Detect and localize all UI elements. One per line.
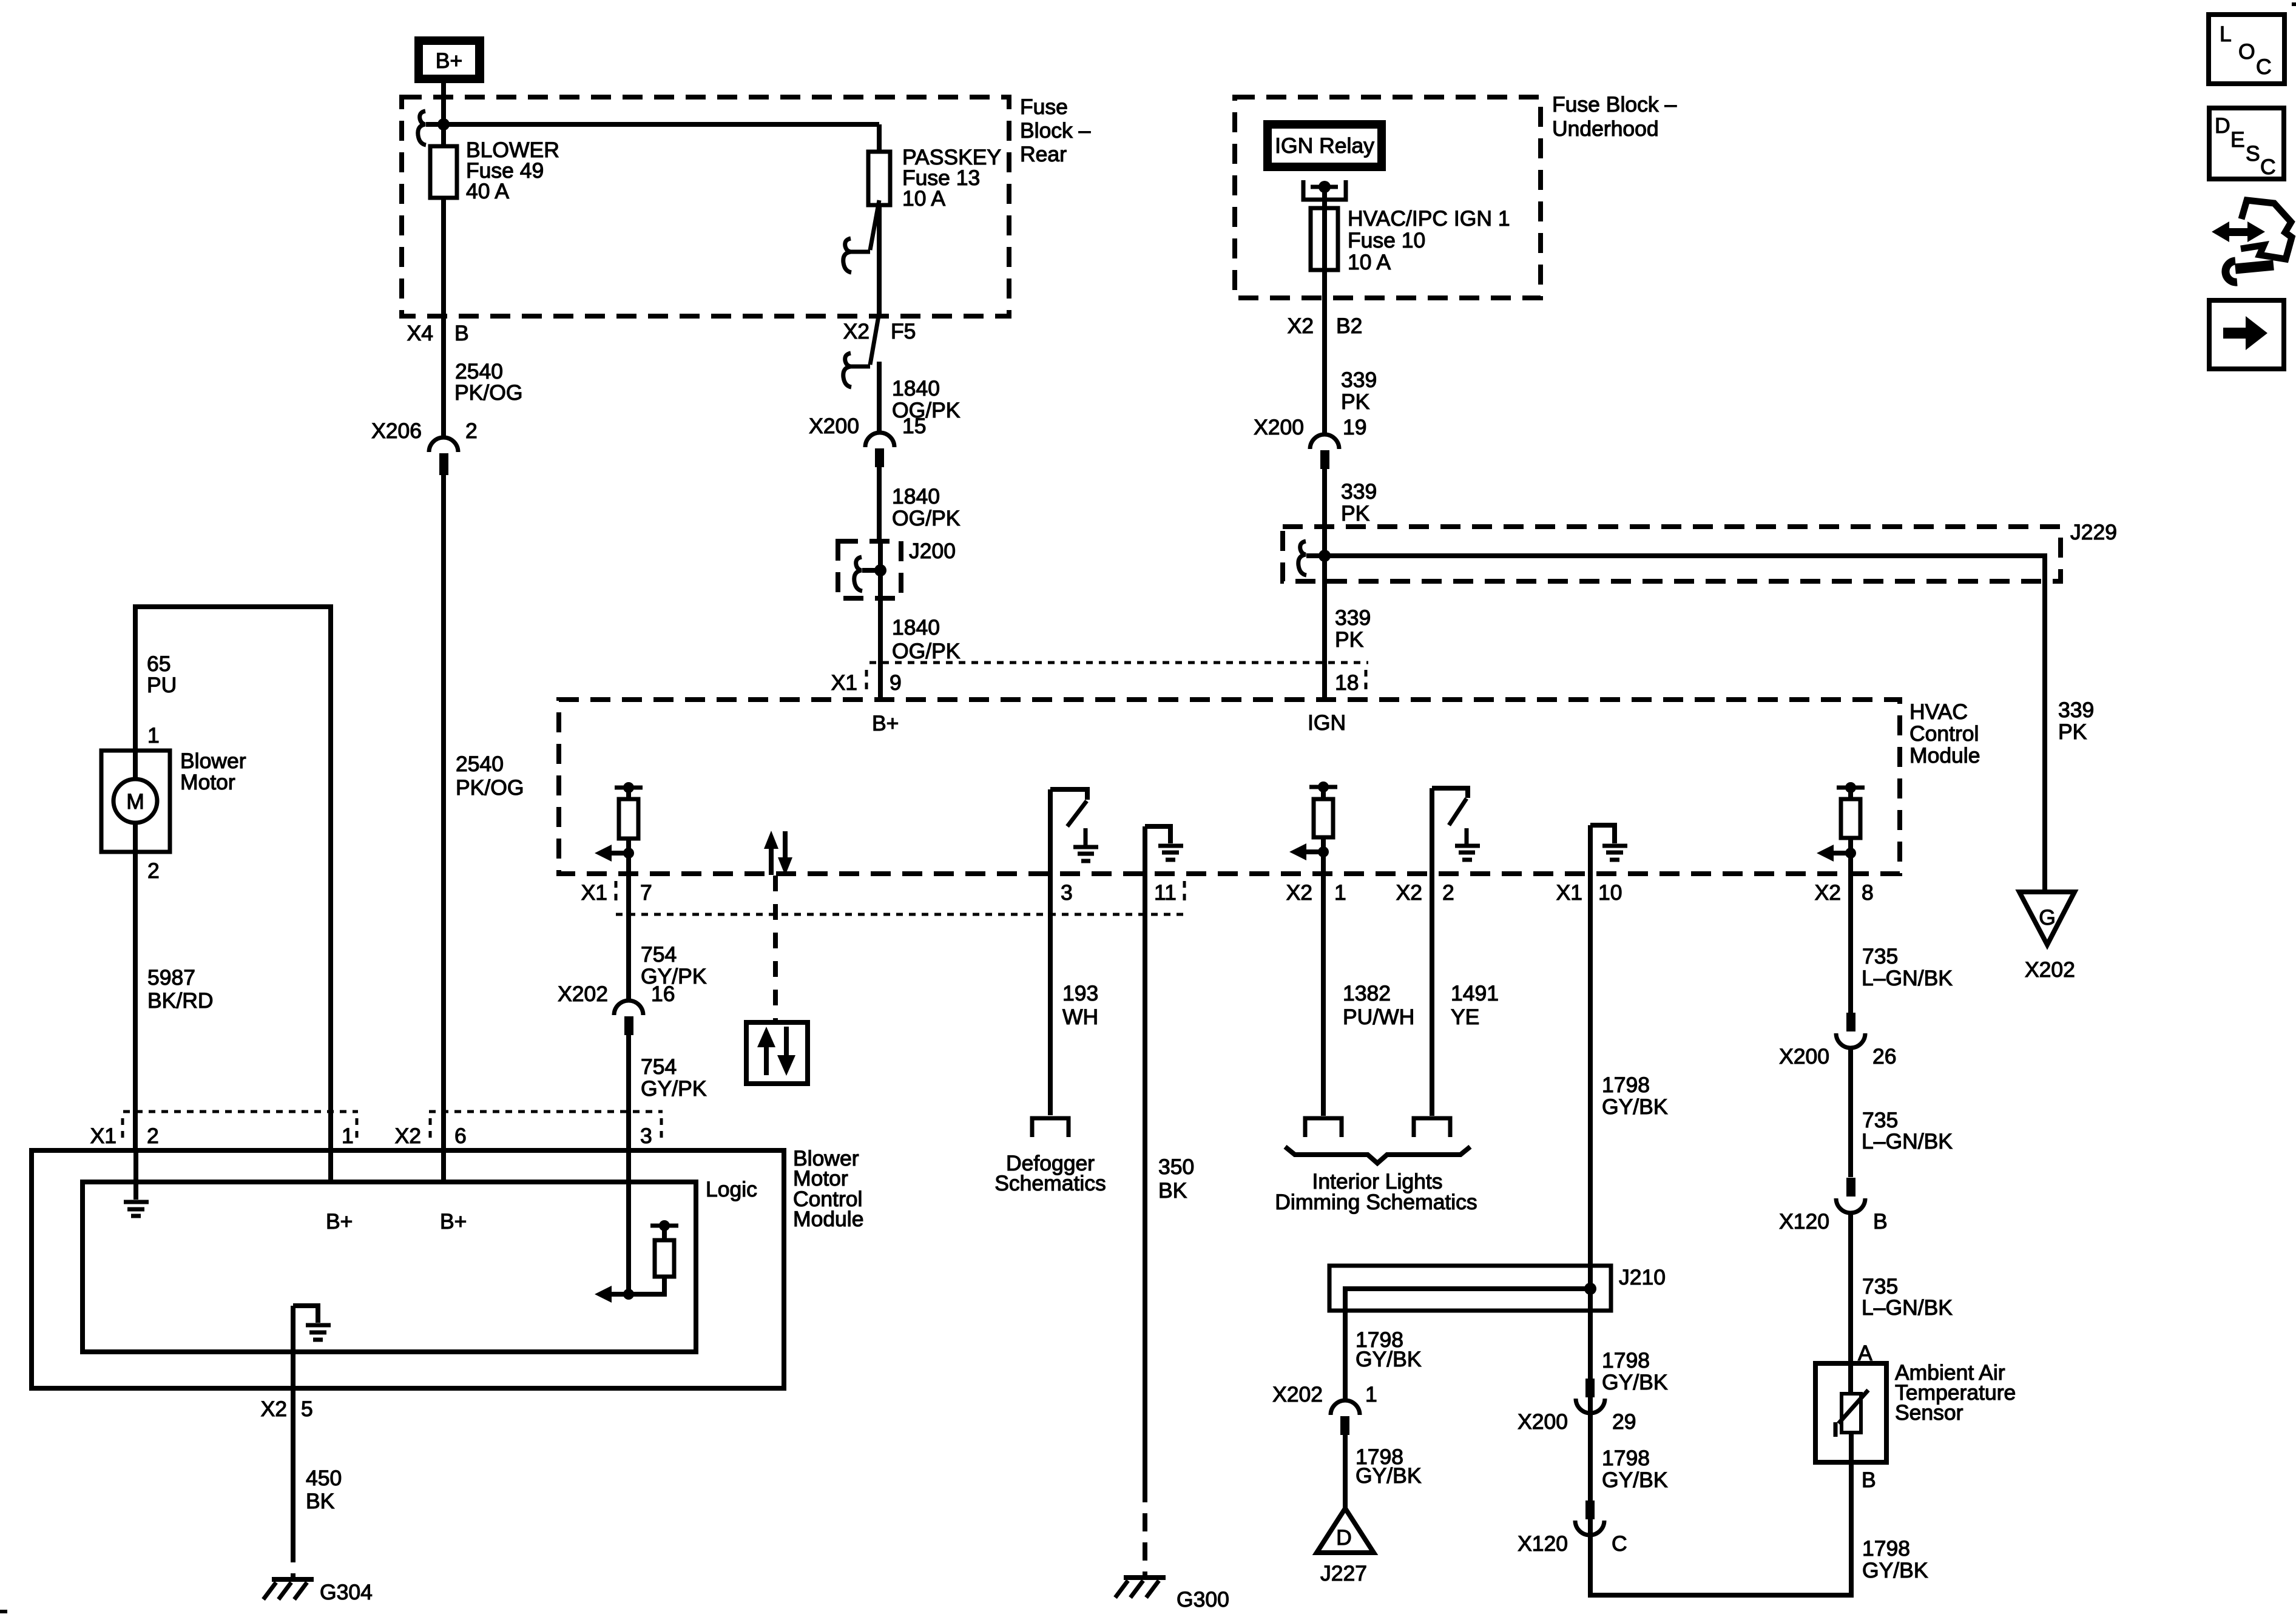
svg-text:X1: X1 [831,670,857,695]
svg-text:B: B [1862,1468,1876,1492]
svg-text:X2: X2 [261,1397,287,1421]
up/down actuator arrows dashed [764,831,792,1022]
blower motor M [101,749,246,852]
fuse BLOWER Fuse 49 40A [430,138,559,437]
wire hook to J200 node [862,568,880,573]
HVAC lower pin labels row [581,880,1874,914]
svg-text:X2: X2 [1815,880,1841,905]
svg-text:15: 15 [902,414,927,438]
Logic inner box [83,1177,757,1352]
wire 1382 PU/WH interior lights [1323,874,1414,1116]
fuse block rear dashed box [402,95,1091,316]
svg-text:PK: PK [2058,720,2087,744]
svg-text:6: 6 [454,1124,467,1148]
svg-text:B: B [454,321,469,345]
svg-text:X120: X120 [1518,1531,1568,1556]
connector X202 16 [558,982,675,1035]
svg-text:PU/WH: PU/WH [1343,1005,1414,1029]
wire 735 L-GN/BK from pin X2 8 [1851,874,1953,1014]
icon box DESC [2209,108,2284,179]
wire 1798 GY/BK below J210 [1602,1348,1668,1394]
svg-text:X2: X2 [1396,880,1422,905]
svg-text:IGN Relay: IGN Relay [1275,133,1374,158]
svg-text:B2: B2 [1336,314,1362,338]
svg-text:11: 11 [1154,880,1177,905]
svg-text:B+: B+ [326,1209,353,1234]
svg-text:2540: 2540 [456,752,504,776]
svg-text:BK: BK [306,1489,335,1513]
svg-text:GY/BK: GY/BK [1862,1558,1928,1582]
svg-text:339: 339 [2058,698,2094,722]
wire 1840 OG/PK upper [879,362,961,433]
svg-text:339: 339 [1341,479,1377,504]
svg-text:754: 754 [641,1055,677,1079]
svg-text:2: 2 [147,1124,159,1148]
D splice pack triangle J227 [1317,1508,1374,1585]
node J200 junction [874,564,886,576]
svg-text:PK: PK [1341,501,1370,525]
HVAC Control Module dashed box [559,700,1980,874]
svg-text:1798: 1798 [1862,1536,1910,1561]
svg-text:10 A: 10 A [1348,250,1391,274]
svg-text:735: 735 [1862,1274,1898,1298]
svg-text:GY/BK: GY/BK [1356,1463,1422,1488]
svg-text:WH: WH [1062,1005,1098,1029]
svg-text:X2: X2 [843,319,869,343]
svg-text:Dimming Schematics: Dimming Schematics [1275,1190,1477,1214]
svg-text:65: 65 [147,652,171,676]
svg-text:1798: 1798 [1602,1348,1650,1372]
svg-text:B+: B+ [872,711,899,735]
relay output bracket [1303,180,1346,208]
svg-text:L–GN/BK: L–GN/BK [1862,1295,1953,1320]
svg-text:J227: J227 [1320,1561,1367,1585]
svg-text:9: 9 [890,670,902,695]
hook splice at B+ junction [418,111,426,145]
svg-text:PK/OG: PK/OG [456,775,524,800]
resistor dimming input X2 1 [1289,781,1337,874]
pin X2 5 [261,1397,313,1421]
ground at pin 3 switch [1073,828,1098,861]
svg-text:10: 10 [1598,880,1622,905]
wire 350 BK to G300 [1145,874,1194,1575]
svg-text:GY/BK: GY/BK [1602,1370,1668,1394]
svg-text:754: 754 [641,942,677,967]
wire 1798 GY/BK from pin X1 10 [1590,874,1668,1595]
connector X120 B [1779,1178,1888,1234]
svg-text:Block –: Block – [1020,118,1091,143]
svg-text:2: 2 [1442,880,1454,905]
svg-text:HVAC: HVAC [1909,700,1968,724]
wire pin 6 into logic [441,1150,446,1182]
svg-text:B+: B+ [436,49,462,73]
svg-text:X4: X4 [407,321,433,345]
resistor sensor input X2 8 [1817,782,1865,874]
svg-text:GY/BK: GY/BK [1356,1347,1422,1371]
svg-text:18: 18 [1335,670,1359,695]
connector X202 1 [1272,1382,1377,1435]
connector X120 C [1518,1501,1627,1556]
G ground triangle X202 [2019,892,2075,982]
svg-text:GY/BK: GY/BK [1602,1468,1668,1492]
ground at pin 11 [1145,826,1183,874]
svg-text:OG/PK: OG/PK [892,506,961,530]
svg-text:X1: X1 [90,1124,116,1148]
hook splice inside J229 [1298,541,1306,575]
svg-text:19: 19 [1343,415,1367,439]
wire 735 L-GN/BK to sensor pin A [1851,1213,1953,1365]
pin X4 B [407,321,469,345]
svg-text:F5: F5 [891,319,916,343]
fuse HVAC/IPC IGN 1 Fuse 10 10A [1311,206,1510,274]
svg-text:C: C [2256,55,2272,79]
svg-text:2: 2 [465,419,478,443]
node J229 junction [1319,550,1331,562]
connector X200 19 [1254,415,1366,469]
ground at pin X1 10 [1590,825,1627,874]
svg-text:1798: 1798 [1602,1073,1650,1097]
svg-text:B+: B+ [440,1209,467,1234]
wire 339 PK middle [1325,469,1377,700]
svg-text:C: C [1612,1531,1627,1556]
ground inside logic at pin X1 2 [124,1150,149,1216]
svg-text:735: 735 [1862,1108,1898,1132]
svg-text:Sensor: Sensor [1895,1400,1963,1425]
svg-text:HVAC/IPC IGN 1: HVAC/IPC IGN 1 [1348,206,1510,231]
splice J210 box [1329,1265,1666,1311]
switch to ground at pin X2 2 [1432,788,1468,874]
svg-text:X206: X206 [371,419,422,443]
connector X200 29 [1518,1379,1636,1434]
svg-text:Fuse 10: Fuse 10 [1348,228,1425,252]
wire 1798 GY/BK to J227 [1345,1435,1422,1508]
wire 1840 OG/PK middle [879,467,961,541]
wire 735 L-GN/BK between X200 26 and X120 B [1851,1048,1953,1177]
resistor blower control output X1 7 [595,782,643,874]
fuse PASSKEY Fuse 13 10A [868,124,1001,211]
node B+ junction [437,118,450,130]
hook splice inside J200 [854,557,862,591]
interior lights brace and label [1275,1147,1477,1214]
svg-text:PK: PK [1341,390,1370,414]
svg-text:D: D [1336,1525,1352,1550]
svg-text:X200: X200 [809,414,859,438]
svg-text:Module: Module [793,1207,863,1231]
pin X2 B2 [1288,270,1363,433]
svg-text:5: 5 [301,1397,313,1421]
svg-text:L: L [2220,22,2232,46]
svg-text:Fuse Block –: Fuse Block – [1552,92,1676,116]
svg-text:D: D [2215,113,2230,138]
svg-text:GY/PK: GY/PK [641,1076,707,1101]
wire 754 GY/PK to BMCM pin 3 [629,1035,707,1150]
wire 339 PK below J229 label [1335,606,1371,652]
svg-text:2540: 2540 [455,359,503,383]
wire 339 PK upper [1341,368,1377,414]
svg-text:450: 450 [306,1466,342,1490]
B+ power symbol [414,36,484,83]
icon box next arrow [2209,300,2284,369]
wire 1798 GY/BK between X200 29 and X120 C [1602,1446,1668,1492]
svg-text:1840: 1840 [892,615,940,640]
svg-text:1798: 1798 [1602,1446,1650,1470]
wire bottom run to sensor B [1590,1462,1851,1595]
svg-text:Blower: Blower [180,749,246,773]
Ambient Air Temperature Sensor box [1815,1360,2016,1462]
svg-text:X2: X2 [1288,314,1314,338]
svg-text:Rear: Rear [1020,142,1067,166]
ground G300 [1115,1578,1229,1612]
svg-text:J210: J210 [1619,1265,1666,1289]
connector X2 F5 blade and hook at fuse block edge [843,312,916,387]
svg-text:Fuse: Fuse [1020,95,1068,119]
svg-text:1382: 1382 [1343,981,1391,1005]
svg-text:G300: G300 [1177,1587,1229,1612]
wire inside J210 [1345,1289,1590,1311]
ground G304 [263,1579,373,1604]
connector X200 15 [809,414,926,467]
label pin B and wire 1798 GY/BK sensor [1862,1468,1928,1582]
svg-text:Motor: Motor [180,770,235,794]
svg-text:C: C [2260,155,2276,179]
interior lights bracket left [1305,1118,1342,1137]
svg-text:40 A: 40 A [466,179,509,203]
svg-text:X120: X120 [1779,1209,1829,1234]
svg-text:X2: X2 [1286,880,1312,905]
wire B+ down to junction [441,83,446,146]
blower motor circuit loop [135,607,331,1150]
svg-text:3: 3 [1061,880,1073,905]
svg-text:X202: X202 [2025,957,2075,982]
svg-text:2: 2 [147,859,160,883]
svg-text:339: 339 [1335,606,1371,630]
svg-text:YE: YE [1451,1005,1479,1029]
svg-text:G304: G304 [320,1580,373,1604]
resistor speed control in logic [595,1220,678,1303]
svg-text:S: S [2246,141,2260,166]
svg-text:X200: X200 [1254,415,1304,439]
svg-text:X1: X1 [1556,880,1582,905]
node J210 junction [1584,1283,1596,1295]
svg-text:L–GN/BK: L–GN/BK [1862,966,1953,990]
wire 1840 OG/PK lower to HVAC pin 9 [880,541,961,700]
svg-text:1491: 1491 [1451,981,1499,1005]
svg-text:735: 735 [1862,944,1898,968]
svg-text:M: M [126,789,144,814]
splice J200 dashed box [838,539,956,598]
svg-text:193: 193 [1062,981,1098,1005]
svg-text:L–GN/BK: L–GN/BK [1862,1129,1953,1153]
svg-text:8: 8 [1862,880,1874,905]
switch to ground at pin 3 [1050,789,1087,874]
connector X200 26 [1779,1013,1896,1068]
icon box LOC [2209,15,2284,84]
svg-text:5987: 5987 [147,965,195,990]
splice J229 dashed box [1283,520,2117,581]
fuse block underhood dashed box [1235,92,1676,298]
svg-text:IGN: IGN [1308,711,1346,735]
IGN Relay box [1263,120,1386,171]
ground at pin X2 2 switch [1455,828,1480,860]
svg-text:PK/OG: PK/OG [454,380,522,405]
svg-text:3: 3 [640,1124,652,1148]
svg-text:PU: PU [147,673,177,697]
wire 1798 GY/BK to X202 1 [1345,1311,1422,1401]
svg-text:GY/BK: GY/BK [1602,1095,1668,1119]
svg-text:PK: PK [1335,627,1364,652]
svg-text:Module: Module [1909,743,1980,768]
svg-text:1: 1 [342,1124,354,1148]
svg-text:7: 7 [640,880,652,905]
svg-text:O: O [2238,39,2255,64]
svg-text:G: G [2039,905,2056,930]
svg-text:26: 26 [1872,1044,1897,1068]
svg-text:350: 350 [1158,1155,1194,1179]
connector row X1 9 dotted line [831,663,1368,695]
Blower Motor Control Module box [32,1146,863,1388]
interior lights bracket right [1414,1118,1450,1137]
svg-text:X2: X2 [395,1124,421,1148]
wire 339 PK right branch label [2058,698,2094,744]
svg-text:Schematics: Schematics [994,1171,1106,1195]
thermistor symbol [1835,1363,1868,1462]
svg-text:10 A: 10 A [902,186,945,211]
svg-text:J229: J229 [2070,520,2117,544]
svg-text:1: 1 [147,723,160,748]
svg-text:29: 29 [1612,1409,1636,1434]
boxed up/down actuator icon [746,1022,808,1084]
passkey fuse output blade and hook [843,200,879,316]
svg-text:X200: X200 [1779,1044,1829,1068]
wire J229 to right then down [1306,556,2045,892]
svg-text:1840: 1840 [892,484,940,508]
svg-text:X200: X200 [1518,1409,1568,1434]
BMCM connector row dotted [90,1112,663,1148]
svg-text:339: 339 [1341,368,1377,392]
svg-text:E: E [2230,127,2245,152]
corner marks [0,1610,7,1613]
wire pin 1 into logic [328,1150,333,1182]
svg-text:1840: 1840 [892,376,940,400]
icon adjust arrows and wrench [2212,200,2292,282]
svg-text:BK/RD: BK/RD [147,988,214,1013]
svg-text:X202: X202 [558,982,608,1006]
svg-text:X1: X1 [581,880,607,905]
wire 193 WH defogger [1050,874,1098,1115]
svg-text:1: 1 [1365,1382,1377,1406]
wire BMCM pin 3 into logic [626,1150,631,1294]
svg-text:J200: J200 [909,539,956,563]
svg-text:B: B [1873,1209,1888,1234]
svg-text:Underhood: Underhood [1552,116,1659,141]
wire 754 GY/PK from pin 7 [629,874,707,1001]
defogger off-page bracket [994,1118,1106,1195]
svg-text:1: 1 [1334,880,1346,905]
wire 450 BK [293,1388,342,1577]
svg-text:OG/PK: OG/PK [892,639,961,663]
svg-text:16: 16 [651,982,675,1006]
svg-text:BK: BK [1158,1178,1187,1203]
wire 2540 PK/OG long from X206 to BMCM pin 6 [444,359,524,1150]
wire junction to passkey fuse [426,122,879,127]
svg-text:X202: X202 [1272,1382,1323,1406]
wire 1491 YE interior lights [1432,874,1499,1116]
svg-text:Control: Control [1909,721,1979,746]
connector X206 2 [371,419,478,475]
svg-text:Logic: Logic [706,1177,757,1201]
ground center of logic [293,1306,331,1388]
